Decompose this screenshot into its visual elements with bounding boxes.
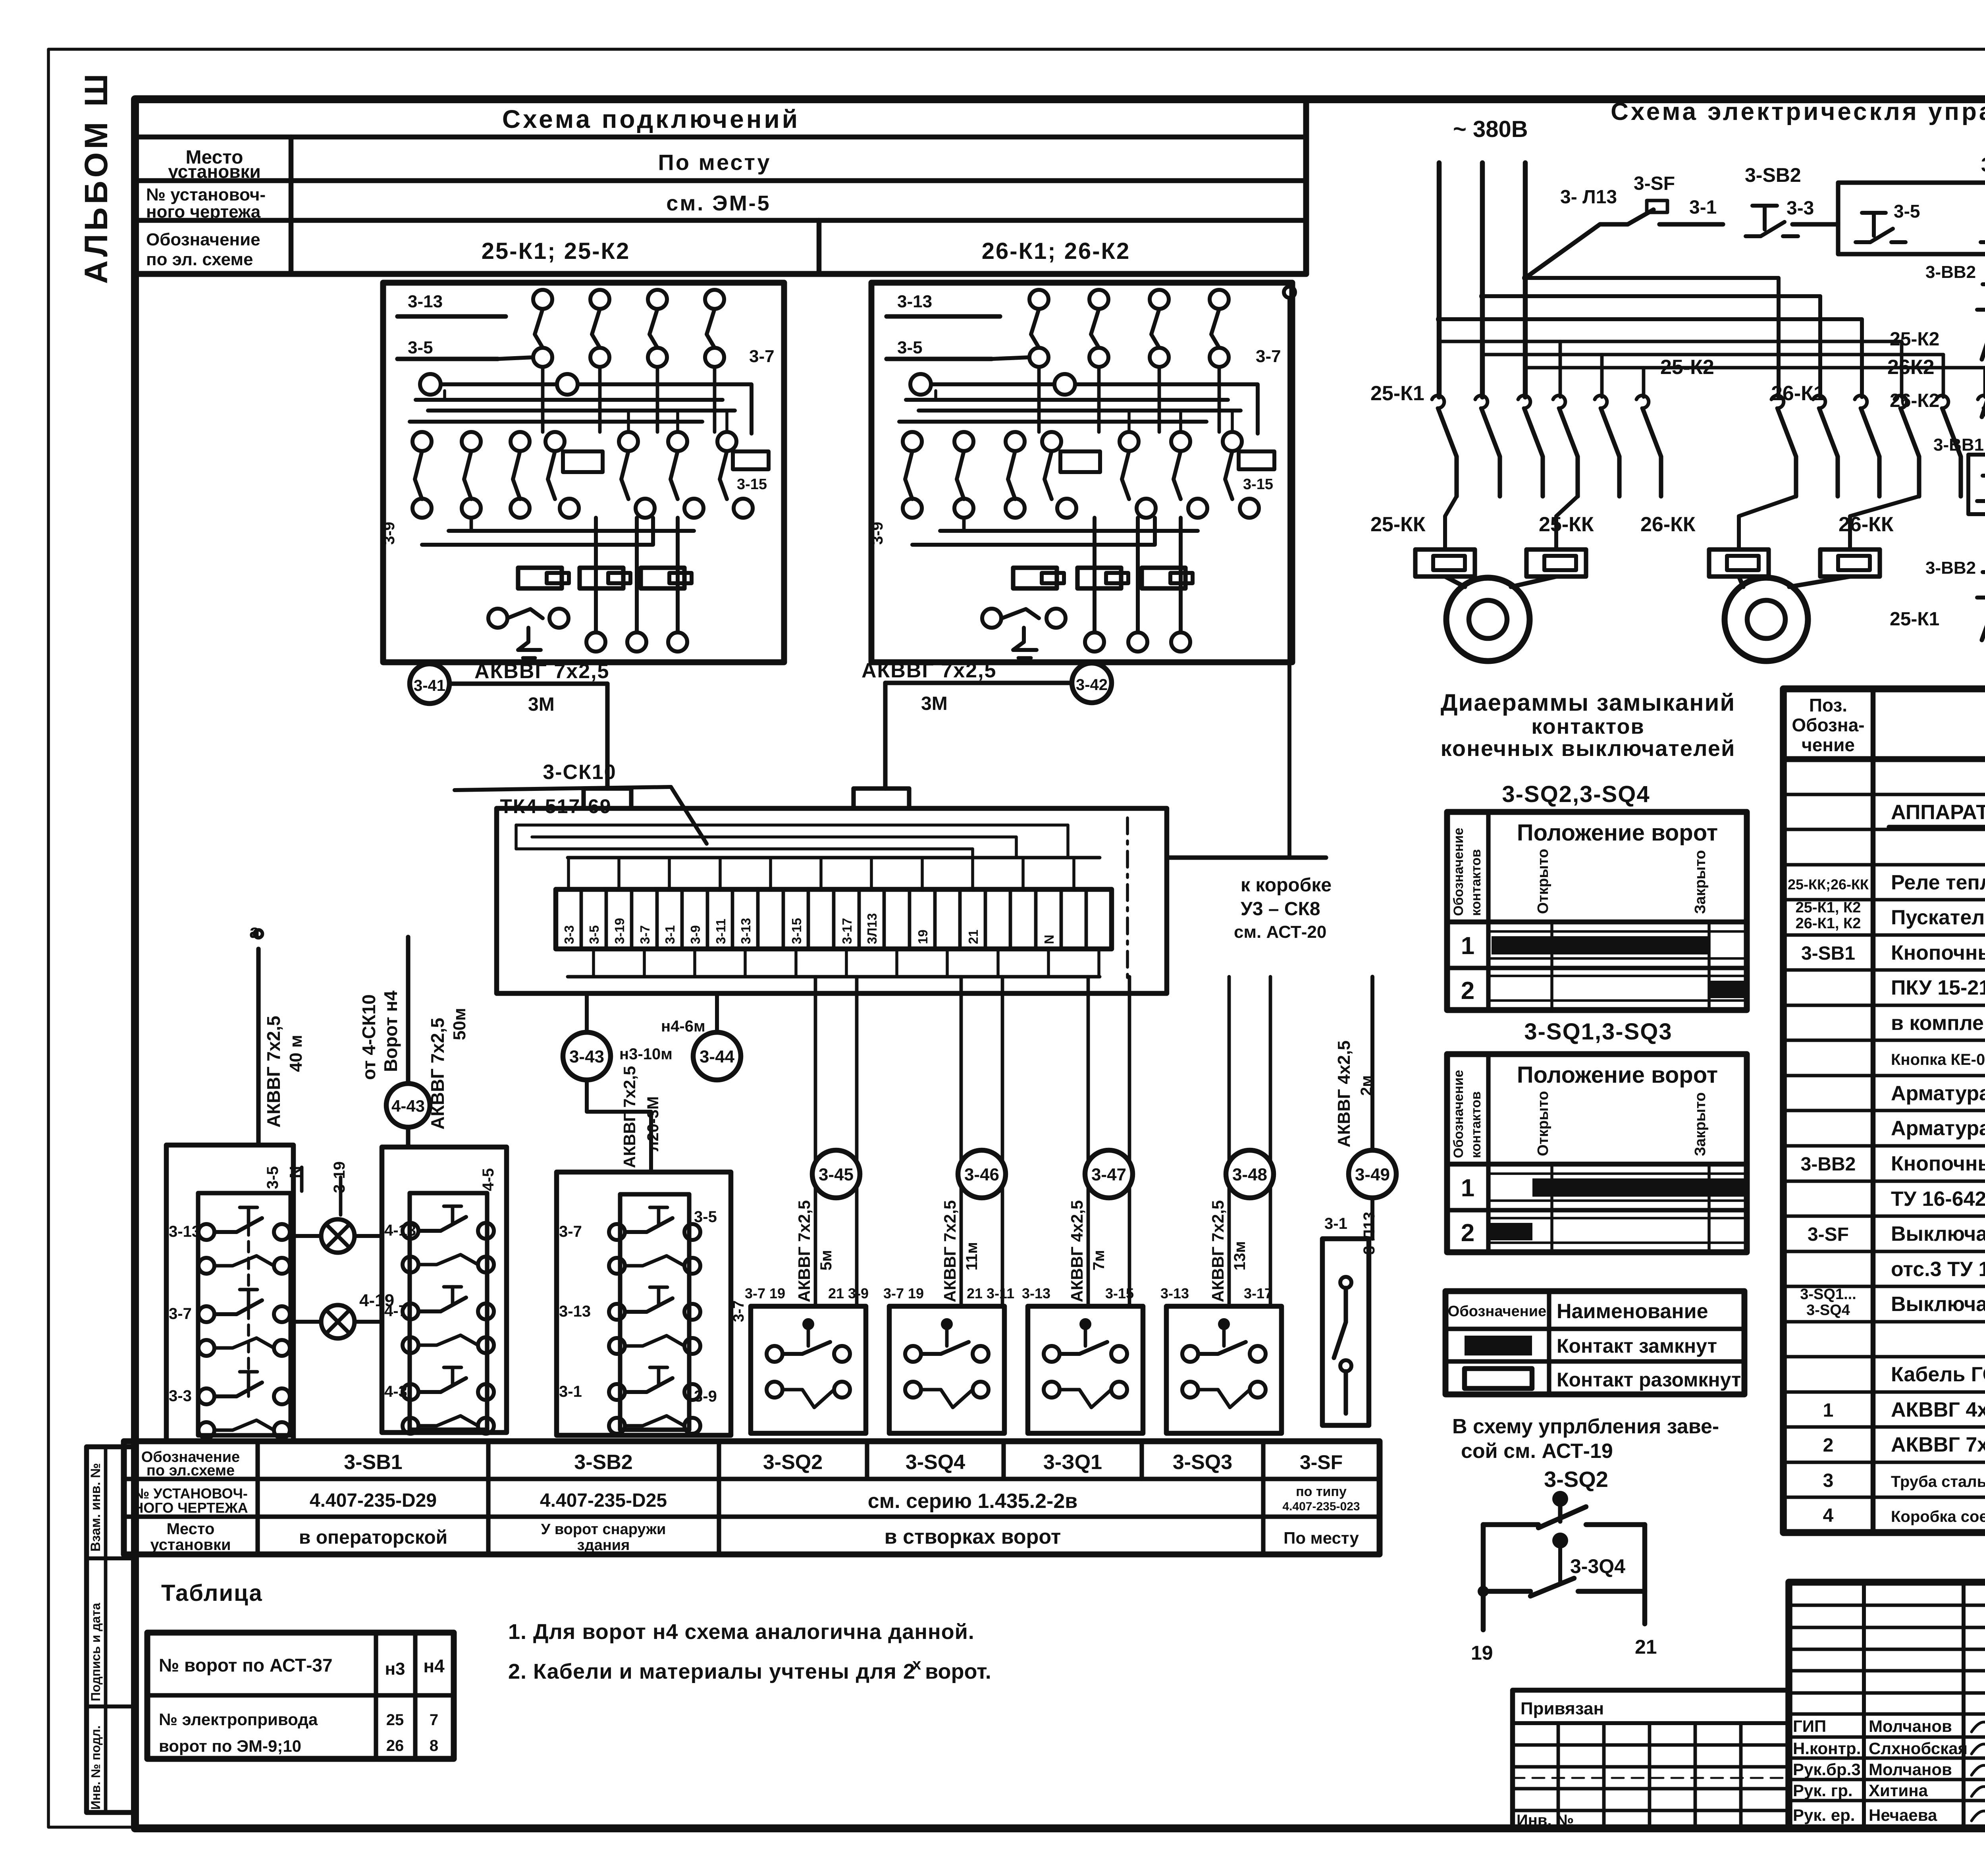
svg-text:Выключатель конечный: Выключатель конечный xyxy=(1891,1293,1985,1316)
svg-text:4: 4 xyxy=(1823,1505,1834,1526)
svg-text:см. серию 1.435.2-2в: см. серию 1.435.2-2в xyxy=(868,1490,1077,1513)
svg-text:л20-3М: л20-3М xyxy=(644,1096,662,1151)
svg-text:здания: здания xyxy=(577,1537,630,1554)
svg-text:АКВВГ 7х2,5: АКВВГ 7х2,5 xyxy=(795,1200,813,1302)
svg-text:3-SQ4: 3-SQ4 xyxy=(1806,1302,1850,1319)
svg-text:Рук. ер.: Рук. ер. xyxy=(1793,1806,1855,1824)
svg-text:3-SQ3: 3-SQ3 xyxy=(1173,1451,1232,1474)
svg-text:3-5: 3-5 xyxy=(587,925,601,944)
svg-text:3-3Q4: 3-3Q4 xyxy=(1570,1555,1625,1577)
svg-text:Арматура АЕР 3131У1: Арматура АЕР 3131У1 xyxy=(1891,1117,1985,1140)
svg-text:3-SВ1: 3-SВ1 xyxy=(1981,154,1985,176)
svg-text:3-9: 3-9 xyxy=(380,522,398,545)
svg-text:21: 21 xyxy=(966,929,981,944)
svg-text:25-КК: 25-КК xyxy=(1370,513,1426,536)
svg-text:19: 19 xyxy=(915,929,930,944)
svg-text:Арматура АЕР 8111У1: Арматура АЕР 8111У1 xyxy=(1891,1082,1985,1105)
svg-text:3Л13: 3Л13 xyxy=(865,913,879,944)
svg-text:25: 25 xyxy=(386,1711,404,1729)
svg-text:ГИП: ГИП xyxy=(1793,1717,1826,1735)
svg-text:25-К2: 25-К2 xyxy=(1890,329,1939,350)
svg-text:3-17: 3-17 xyxy=(840,918,854,944)
svg-text:ТК4-517-69: ТК4-517-69 xyxy=(500,795,611,817)
svg-text:7: 7 xyxy=(430,1711,438,1729)
svg-text:АКВВГ 4х2,5: АКВВГ 4х2,5 xyxy=(1891,1398,1985,1421)
svg-text:Молчанов: Молчанов xyxy=(1869,1760,1952,1779)
svg-text:26-К1, К2: 26-К1, К2 xyxy=(1796,915,1861,932)
svg-text:3-Л13: 3-Л13 xyxy=(1361,1212,1378,1255)
svg-text:3-7 19: 3-7 19 xyxy=(883,1285,924,1301)
svg-text:в створках ворот: в створках ворот xyxy=(885,1525,1061,1548)
svg-text:№ ворот по АСТ-37: № ворот по АСТ-37 xyxy=(159,1655,333,1675)
svg-text:3М: 3М xyxy=(921,693,948,714)
svg-text:Поз.: Поз. xyxy=(1809,695,1847,715)
svg-text:отс.3 ТУ 16.522. 140-78: отс.3 ТУ 16.522. 140-78 xyxy=(1891,1258,1985,1281)
svg-text:Слхнобская: Слхнобская xyxy=(1869,1739,1968,1758)
svg-text:3-3: 3-3 xyxy=(169,1387,192,1405)
svg-text:26-КК: 26-КК xyxy=(1839,513,1894,536)
svg-text:4-5: 4-5 xyxy=(480,1168,497,1191)
svg-text:26-К1: 26-К1 xyxy=(1771,382,1825,405)
svg-text:11м: 11м xyxy=(963,1242,981,1271)
svg-text:N: N xyxy=(1042,935,1056,944)
svg-text:контактов: контактов xyxy=(1469,1091,1484,1158)
svg-text:3-15: 3-15 xyxy=(789,918,804,944)
svg-text:3-19: 3-19 xyxy=(612,918,627,944)
svg-text:3-SF: 3-SF xyxy=(1300,1451,1343,1473)
svg-text:Закрыто: Закрыто xyxy=(1692,850,1709,914)
svg-text:3-1: 3-1 xyxy=(1689,197,1717,218)
svg-text:в комплект входит:: в комплект входит: xyxy=(1891,1012,1985,1035)
svg-text:ворот.: ворот. xyxy=(925,1660,991,1683)
svg-text:по типу: по типу xyxy=(1296,1484,1347,1499)
svg-text:3-3: 3-3 xyxy=(562,925,576,944)
svg-text:НОГО ЧЕРТЕЖА: НОГО ЧЕРТЕЖА xyxy=(133,1500,248,1516)
svg-text:3-5: 3-5 xyxy=(897,338,923,357)
svg-text:АКВВГ 7х2,5: АКВВГ 7х2,5 xyxy=(620,1066,639,1168)
svg-text:Рук.бр.3: Рук.бр.3 xyxy=(1793,1760,1861,1779)
svg-text:Пускатель: Пускатель xyxy=(1891,906,1985,929)
svg-text:3-41: 3-41 xyxy=(414,677,445,694)
svg-text:3-13: 3-13 xyxy=(897,292,932,311)
svg-text:3-7: 3-7 xyxy=(169,1305,192,1323)
svg-text:3-SQ1...: 3-SQ1... xyxy=(1800,1286,1856,1303)
svg-text:конечных выключателей: конечных выключателей xyxy=(1441,736,1736,761)
svg-text:3-СК10: 3-СК10 xyxy=(543,761,616,784)
svg-text:4.407-235-D25: 4.407-235-D25 xyxy=(540,1490,667,1511)
svg-text:Положение ворот: Положение ворот xyxy=(1517,820,1718,846)
svg-text:1: 1 xyxy=(1461,932,1474,960)
svg-text:3-SQ2,3-SQ4: 3-SQ2,3-SQ4 xyxy=(1502,781,1650,807)
svg-text:Открыто: Открыто xyxy=(1535,849,1551,914)
svg-text:АКВВГ 7х2,5: АКВВГ 7х2,5 xyxy=(263,1016,284,1128)
svg-text:Реле тепловое: Реле тепловое xyxy=(1891,871,1985,894)
svg-text:ворот по ЭМ-9;10: ворот по ЭМ-9;10 xyxy=(159,1737,301,1755)
svg-text:3-3: 3-3 xyxy=(1786,198,1814,219)
svg-text:3-7: 3-7 xyxy=(730,1300,747,1322)
svg-text:к коробке: к коробке xyxy=(1241,875,1332,896)
svg-text:Диаераммы замыканий: Диаераммы замыканий xyxy=(1441,689,1736,716)
svg-text:2: 2 xyxy=(1823,1435,1834,1456)
svg-text:3-7: 3-7 xyxy=(559,1223,582,1240)
svg-text:н3: н3 xyxy=(385,1659,405,1679)
svg-text:3-15: 3-15 xyxy=(1105,1285,1134,1301)
svg-text:3-48: 3-48 xyxy=(1232,1165,1267,1184)
svg-text:АКВВГ 7х2,5: АКВВГ 7х2,5 xyxy=(861,659,996,682)
svg-text:3-SВ1: 3-SВ1 xyxy=(344,1451,402,1474)
svg-text:3-9: 3-9 xyxy=(694,1388,717,1405)
svg-text:3-43: 3-43 xyxy=(569,1047,604,1066)
svg-text:Н.контр.: Н.контр. xyxy=(1793,1739,1861,1758)
svg-text:21 3-11: 21 3-11 xyxy=(967,1285,1014,1301)
svg-text:АКВВГ 7х2,5: АКВВГ 7х2,5 xyxy=(940,1200,959,1302)
svg-text:1. Для ворот н4 схема ана: 1. Для ворот н4 схема аналогична данной. xyxy=(508,1620,975,1644)
svg-text:~ 380В: ~ 380В xyxy=(1453,116,1528,142)
svg-text:3-1: 3-1 xyxy=(663,925,677,944)
svg-text:25-К1, К2: 25-К1, К2 xyxy=(1796,899,1861,916)
svg-text:3- Л13: 3- Л13 xyxy=(1560,187,1617,208)
svg-text:Обозначение: Обозначение xyxy=(146,230,260,249)
svg-text:4-3: 4-3 xyxy=(384,1383,407,1400)
svg-text:3-11: 3-11 xyxy=(713,919,728,944)
svg-text:контактов: контактов xyxy=(1531,715,1644,738)
svg-text:40 м: 40 м xyxy=(286,1035,306,1072)
svg-text:сой см. АСТ-19: сой см. АСТ-19 xyxy=(1461,1440,1613,1463)
svg-text:Подпись и дата: Подпись и дата xyxy=(89,1603,103,1701)
svg-text:3-SВ2: 3-SВ2 xyxy=(1745,164,1801,186)
svg-text:н4-6м: н4-6м xyxy=(661,1018,705,1035)
svg-text:3-42: 3-42 xyxy=(1076,676,1108,694)
svg-text:2. Кабели и материалы учте: 2. Кабели и материалы учтены для 2 xyxy=(508,1660,915,1683)
svg-text:50м: 50м xyxy=(450,1008,469,1041)
svg-text:Контакт замкнут: Контакт замкнут xyxy=(1557,1335,1717,1357)
svg-text:Закрыто: Закрыто xyxy=(1692,1092,1709,1156)
svg-text:АКВВГ 7х2,5: АКВВГ 7х2,5 xyxy=(474,660,609,683)
svg-text:25-КК;26-КК: 25-КК;26-КК xyxy=(1788,876,1869,893)
svg-text:Открыто: Открыто xyxy=(1535,1091,1551,1156)
svg-text:26К2: 26К2 xyxy=(1887,356,1935,379)
svg-text:по эл. схеме: по эл. схеме xyxy=(146,250,253,269)
svg-text:ТУ 16-642.006-83: ТУ 16-642.006-83 xyxy=(1891,1188,1985,1211)
svg-text:3: 3 xyxy=(1823,1470,1834,1491)
svg-text:3-5: 3-5 xyxy=(408,338,433,357)
svg-text:2: 2 xyxy=(1461,977,1474,1005)
svg-text:25-К1: 25-К1 xyxy=(1890,609,1939,630)
svg-text:Инв. № подл.: Инв. № подл. xyxy=(89,1726,103,1810)
svg-text:Наименование: Наименование xyxy=(1557,1300,1708,1323)
svg-text:установки: установки xyxy=(168,161,261,182)
svg-text:2: 2 xyxy=(1461,1219,1474,1247)
svg-text:19: 19 xyxy=(1471,1642,1493,1664)
svg-text:3-SВ2: 3-SВ2 xyxy=(574,1451,632,1474)
svg-text:Таблица: Таблица xyxy=(161,1580,263,1606)
svg-text:3-ВВ2: 3-ВВ2 xyxy=(1925,262,1976,282)
svg-text:Кнопочный пост упрабления ПК: Кнопочный пост упрабления ПКЕ-222-342 xyxy=(1891,1152,1985,1175)
svg-text:чение: чение xyxy=(1802,735,1855,755)
svg-text:4.407-235-D29: 4.407-235-D29 xyxy=(310,1490,437,1511)
svg-text:АКВВГ 4х2,5: АКВВГ 4х2,5 xyxy=(1068,1200,1086,1302)
svg-text:3-1: 3-1 xyxy=(559,1383,582,1400)
svg-text:3-ВВ2: 3-ВВ2 xyxy=(1925,558,1976,578)
svg-text:3-7: 3-7 xyxy=(749,347,775,366)
svg-text:установки: установки xyxy=(150,1536,231,1554)
svg-text:3-ЗQ1: 3-ЗQ1 xyxy=(1043,1451,1102,1474)
svg-text:от 4-СК10: от 4-СК10 xyxy=(358,994,379,1080)
svg-text:Хитина: Хитина xyxy=(1869,1781,1928,1800)
svg-text:Кабель ГОСТ 1508-78*Е: Кабель ГОСТ 1508-78*Е xyxy=(1891,1363,1985,1386)
svg-text:4-19: 4-19 xyxy=(359,1291,394,1310)
svg-text:Инв. №: Инв. № xyxy=(1517,1812,1574,1829)
svg-text:4-43: 4-43 xyxy=(391,1097,425,1115)
svg-text:3-SQ2: 3-SQ2 xyxy=(763,1451,823,1474)
svg-text:26-К2: 26-К2 xyxy=(1890,390,1939,411)
svg-text:Нечаева: Нечаева xyxy=(1869,1806,1937,1824)
svg-text:Привязан: Привязан xyxy=(1521,1699,1604,1718)
svg-text:АКВВГ 4х2,5: АКВВГ 4х2,5 xyxy=(1334,1041,1354,1147)
svg-text:5м: 5м xyxy=(817,1250,835,1271)
svg-text:3-7 19: 3-7 19 xyxy=(745,1285,785,1301)
svg-text:4.407-235-023: 4.407-235-023 xyxy=(1282,1500,1360,1513)
svg-text:3-SQ4: 3-SQ4 xyxy=(906,1451,965,1474)
svg-text:АЛЬБОМ Ш: АЛЬБОМ Ш xyxy=(78,71,114,284)
svg-text:13м: 13м xyxy=(1231,1241,1249,1271)
svg-text:26: 26 xyxy=(386,1737,404,1755)
svg-text:25-К1: 25-К1 xyxy=(1370,382,1424,405)
svg-text:№ электропривода: № электропривода xyxy=(159,1710,318,1729)
svg-text:2м: 2м xyxy=(1358,1075,1375,1096)
svg-text:21: 21 xyxy=(1635,1636,1657,1658)
svg-text:контактов: контактов xyxy=(1469,849,1484,916)
svg-text:По месту: По месту xyxy=(1284,1529,1359,1547)
svg-text:Молчанов: Молчанов xyxy=(1869,1717,1952,1735)
svg-text:По месту: По месту xyxy=(658,150,771,175)
svg-text:Место: Место xyxy=(167,1520,215,1538)
svg-text:Выключатель АК63-1м; и~500В;: Выключатель АК63-1м; и~500В; Jр 0,6А xyxy=(1891,1222,1985,1246)
svg-text:АКВВГ 7х2,5: АКВВГ 7х2,5 xyxy=(1891,1433,1985,1456)
svg-text:3-5: 3-5 xyxy=(694,1208,717,1226)
svg-text:1: 1 xyxy=(1823,1400,1834,1421)
svg-text:3-SQ2: 3-SQ2 xyxy=(1544,1467,1608,1492)
svg-text:3-SF: 3-SF xyxy=(1808,1224,1849,1245)
svg-text:3-13: 3-13 xyxy=(738,918,753,944)
svg-text:25-К2: 25-К2 xyxy=(1660,356,1714,379)
svg-text:Ворот н4: Ворот н4 xyxy=(380,991,401,1072)
svg-text:Схема подключений: Схема подключений xyxy=(502,105,800,133)
svg-text:н4: н4 xyxy=(423,1656,445,1676)
svg-text:3-44: 3-44 xyxy=(700,1047,735,1066)
svg-text:3-7: 3-7 xyxy=(638,925,652,944)
svg-text:3-15: 3-15 xyxy=(737,476,767,493)
svg-text:Взам. инв. №: Взам. инв. № xyxy=(88,1463,103,1552)
svg-text:в операторской: в операторской xyxy=(299,1527,447,1548)
svg-text:Кнопка КЕ-011У3,исполн.2;ТУ16: Кнопка КЕ-011У3,исполн.2;ТУ16.526. 407-7… xyxy=(1891,1051,1985,1068)
svg-text:Обозначение: Обозначение xyxy=(1451,828,1466,916)
svg-text:3-7: 3-7 xyxy=(1256,347,1281,366)
svg-text:АКВВГ 7х2,5: АКВВГ 7х2,5 xyxy=(427,1018,448,1130)
svg-text:У3 – СК8: У3 – СК8 xyxy=(1241,898,1320,920)
svg-text:3-13: 3-13 xyxy=(1160,1285,1189,1301)
svg-text:№ УСТАНОВОЧ-: № УСТАНОВОЧ- xyxy=(133,1485,248,1502)
svg-text:ПКУ 15-21. 331-40У3; ТУ16.52: ПКУ 15-21. 331-40У3; ТУ16.526.333-83 xyxy=(1891,976,1985,999)
svg-text:3-5: 3-5 xyxy=(264,1166,281,1189)
svg-text:3-1: 3-1 xyxy=(1324,1215,1347,1232)
svg-text:3-45: 3-45 xyxy=(819,1165,854,1184)
svg-text:Кнопочный пост упрабления: Кнопочный пост упрабления xyxy=(1891,941,1985,964)
svg-text:21 3-9: 21 3-9 xyxy=(828,1285,869,1301)
svg-text:3-5: 3-5 xyxy=(1894,201,1920,222)
svg-text:АКВВГ 7х2,5: АКВВГ 7х2,5 xyxy=(1208,1200,1227,1302)
svg-text:№ установоч-: № установоч- xyxy=(146,185,266,204)
svg-text:В схему упрлбления заве-: В схему упрлбления заве- xyxy=(1452,1415,1719,1438)
svg-text:3М: 3М xyxy=(528,694,555,715)
svg-text:х: х xyxy=(912,1656,921,1673)
svg-text:7м: 7м xyxy=(1090,1250,1108,1271)
svg-text:3-9: 3-9 xyxy=(688,925,703,944)
svg-text:см. АСТ-20: см. АСТ-20 xyxy=(1234,922,1326,942)
svg-text:3-17: 3-17 xyxy=(1244,1285,1272,1301)
svg-text:3-13: 3-13 xyxy=(559,1303,591,1320)
svg-text:Коробка соединительная КСК-32: Коробка соединительная КСК-32 ТУ36. 1753… xyxy=(1891,1508,1985,1525)
svg-text:Обозначение: Обозначение xyxy=(1448,1303,1546,1320)
svg-text:8: 8 xyxy=(430,1737,438,1755)
svg-text:н3-10м: н3-10м xyxy=(619,1045,673,1063)
svg-text:Контакт разомкнут: Контакт разомкнут xyxy=(1557,1369,1741,1391)
svg-text:3-46: 3-46 xyxy=(964,1165,999,1184)
svg-text:Обозначение: Обозначение xyxy=(1451,1070,1466,1158)
svg-text:У ворот снаружи: У ворот снаружи xyxy=(541,1521,666,1538)
svg-text:25-К1; 25-К2: 25-К1; 25-К2 xyxy=(482,238,630,264)
svg-text:3-49: 3-49 xyxy=(1355,1165,1390,1184)
svg-text:Труба стальнля водогазопроводн: Труба стальнля водогазопроводнля л20 ГОС… xyxy=(1891,1473,1985,1490)
svg-text:26-КК: 26-КК xyxy=(1640,513,1696,536)
svg-text:3-SQ1,3-SQ3: 3-SQ1,3-SQ3 xyxy=(1524,1019,1672,1045)
svg-text:Схема электрическля упра: Схема электрическля упрабления xyxy=(1611,98,1985,125)
svg-text:3-ВВ2: 3-ВВ2 xyxy=(1801,1154,1856,1175)
svg-text:4-13: 4-13 xyxy=(384,1222,416,1239)
svg-text:АППАРАТУРА ПО МЕСТУ: АППАРАТУРА ПО МЕСТУ xyxy=(1891,801,1985,824)
svg-text:25-КК: 25-КК xyxy=(1539,513,1594,536)
svg-text:3-13: 3-13 xyxy=(169,1223,200,1240)
svg-text:Обозна-: Обозна- xyxy=(1792,715,1864,735)
svg-text:по эл.схеме: по эл.схеме xyxy=(146,1462,235,1479)
svg-text:3-13: 3-13 xyxy=(408,292,443,311)
svg-text:Рук. гр.: Рук. гр. xyxy=(1793,1781,1853,1800)
svg-text:26-К1; 26-К2: 26-К1; 26-К2 xyxy=(982,238,1130,264)
svg-text:3-SF: 3-SF xyxy=(1634,173,1675,194)
svg-text:3-47: 3-47 xyxy=(1091,1165,1126,1184)
svg-text:Положение ворот: Положение ворот xyxy=(1517,1062,1718,1088)
svg-text:3-9: 3-9 xyxy=(869,522,886,545)
svg-text:3-15: 3-15 xyxy=(1243,476,1273,493)
svg-text:3-13: 3-13 xyxy=(1022,1285,1050,1301)
svg-text:ного чертежа: ного чертежа xyxy=(146,202,261,222)
svg-text:см. ЭМ-5: см. ЭМ-5 xyxy=(666,191,771,215)
svg-text:1: 1 xyxy=(1461,1174,1474,1202)
svg-text:3-SВ1: 3-SВ1 xyxy=(1801,943,1855,964)
